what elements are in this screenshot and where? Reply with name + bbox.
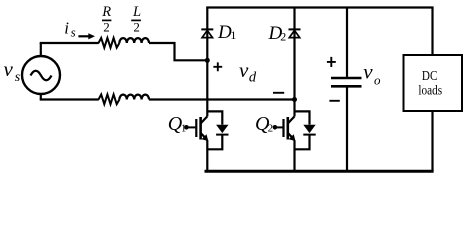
svg-text:2: 2 bbox=[280, 30, 286, 44]
svg-text:1: 1 bbox=[181, 124, 186, 135]
svg-text:R: R bbox=[101, 4, 111, 20]
svg-text:o: o bbox=[374, 72, 381, 87]
svg-text:1: 1 bbox=[230, 28, 236, 42]
svg-text:v: v bbox=[363, 60, 373, 84]
svg-text:v: v bbox=[239, 58, 249, 82]
svg-text:DC: DC bbox=[422, 69, 438, 84]
svg-text:2: 2 bbox=[268, 123, 274, 135]
svg-text:s: s bbox=[15, 70, 21, 85]
svg-text:d: d bbox=[249, 69, 257, 85]
svg-text:v: v bbox=[4, 57, 14, 81]
svg-text:2: 2 bbox=[133, 20, 140, 35]
svg-text:loads: loads bbox=[418, 83, 442, 98]
svg-text:s: s bbox=[71, 24, 76, 39]
svg-text:i: i bbox=[64, 19, 69, 38]
svg-text:2: 2 bbox=[103, 20, 110, 35]
svg-text:L: L bbox=[132, 4, 141, 20]
